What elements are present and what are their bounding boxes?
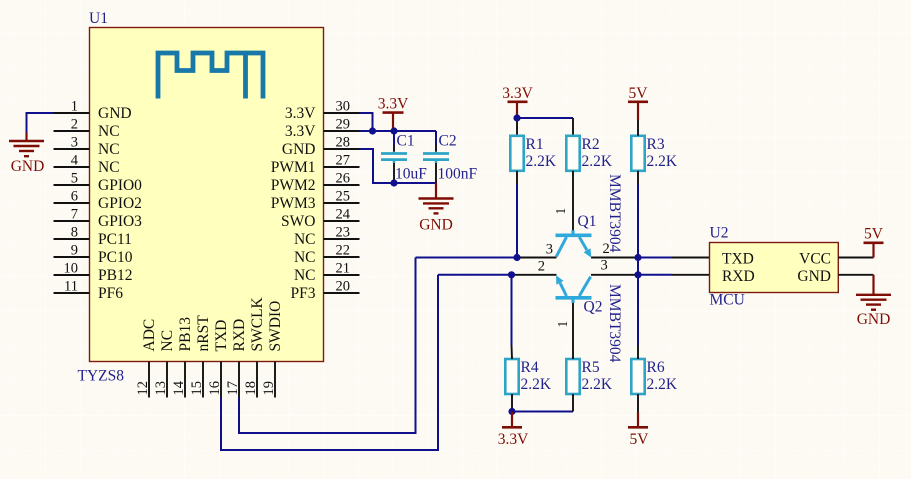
svg-text:3.3V: 3.3V [285, 123, 316, 140]
wire R1 bottom to row A [516, 171, 518, 184]
svg-text:3: 3 [71, 135, 78, 151]
svg-text:2.2K: 2.2K [582, 376, 613, 393]
U1 pin 20 (PF3) [324, 292, 360, 294]
ground GND (left of U1) [25, 133, 27, 142]
svg-text:GPIO2: GPIO2 [98, 195, 142, 212]
svg-text:SWCLK: SWCLK [249, 296, 266, 351]
wire U1 pin29 to C1/C2 [360, 130, 437, 132]
U1 pin 8 (PC11) [54, 238, 90, 240]
svg-text:U2: U2 [710, 225, 729, 242]
junction row B / R4 [508, 271, 515, 278]
svg-text:MMBT3904: MMBT3904 [606, 284, 623, 363]
resistor R6 body [631, 359, 644, 394]
IC U2 body [710, 243, 839, 293]
svg-text:14: 14 [171, 380, 187, 395]
svg-text:PC11: PC11 [98, 231, 132, 248]
junction R4 bottom [508, 408, 515, 415]
U1 pin 19 (SWDIO) [274, 362, 276, 398]
svg-text:29: 29 [336, 117, 351, 133]
svg-text:TXD: TXD [722, 251, 754, 268]
U1 pin 15 (nRST) [202, 362, 204, 398]
svg-text:GND: GND [11, 158, 45, 175]
svg-text:C1: C1 [397, 133, 415, 150]
svg-text:16: 16 [207, 381, 223, 396]
svg-text:nRST: nRST [195, 315, 212, 352]
U1 pin 18 (SWCLK) [256, 362, 258, 398]
svg-text:1: 1 [71, 99, 78, 115]
U1 pin 12 (ADC) [148, 362, 150, 398]
svg-text:GND: GND [419, 217, 453, 234]
svg-text:24: 24 [336, 207, 351, 223]
svg-text:2: 2 [538, 259, 545, 275]
U1 pin 13 (NC) [166, 362, 168, 398]
svg-text:PWM2: PWM2 [271, 177, 316, 194]
svg-text:2.2K: 2.2K [582, 153, 613, 170]
wire R6 bottom to 5V [637, 394, 639, 412]
svg-text:5V: 5V [864, 226, 884, 243]
U1 pin 11 (PF6) [54, 292, 90, 294]
svg-text:RXD: RXD [722, 268, 755, 285]
U1 pin 23 (NC) [324, 238, 360, 240]
svg-text:NC: NC [294, 231, 316, 248]
svg-text:Q1: Q1 [578, 213, 597, 230]
wire R4 bottom / R5 bottom [511, 394, 513, 412]
svg-text:TXD: TXD [213, 320, 230, 352]
U1 pin 16 (TXD) [220, 362, 222, 398]
svg-text:R5: R5 [582, 359, 600, 376]
wire R2 bottom to Q1 base [572, 171, 574, 234]
svg-text:NC: NC [294, 267, 316, 284]
svg-text:5V: 5V [629, 85, 649, 102]
U1 pin 29 (3.3V) [324, 130, 360, 132]
capacitor C1 [393, 152, 396, 154]
U1 pin 25 (PWM3) [324, 202, 360, 204]
U1 pin 1 (GND) [54, 112, 90, 114]
U1 pin 28 (GND) [324, 148, 360, 150]
junction 3.3V/R1 [513, 114, 520, 121]
junction row A / R3 column [634, 254, 641, 261]
svg-text:R2: R2 [582, 136, 600, 153]
svg-text:19: 19 [261, 381, 277, 396]
svg-text:2.2K: 2.2K [647, 376, 678, 393]
IC U1 body [90, 28, 324, 362]
svg-text:GND: GND [98, 105, 132, 122]
svg-text:21: 21 [336, 261, 351, 277]
svg-text:3.3V: 3.3V [285, 105, 316, 122]
U1 pin 17 (RXD) [238, 362, 240, 398]
junction pin30/pin29 [369, 127, 376, 134]
svg-text:23: 23 [336, 225, 351, 241]
svg-text:PB12: PB12 [98, 267, 132, 284]
svg-text:Q2: Q2 [584, 299, 603, 316]
svg-text:R6: R6 [647, 359, 665, 376]
wire 3.3V to R1/R2 [516, 120, 518, 136]
svg-text:NC: NC [98, 123, 120, 140]
U1 pin 24 (SWO) [324, 220, 360, 222]
resistor R2 body [566, 136, 579, 171]
U1 pin 14 (PB13) [184, 362, 186, 398]
U1 pin 5 (GPIO0) [54, 184, 90, 186]
U1 pin 9 (PC10) [54, 256, 90, 258]
svg-text:18: 18 [243, 381, 259, 396]
junction C1 bottom [390, 179, 397, 186]
ground GND (right, at U2 GND) [872, 275, 874, 295]
capacitor C2 [435, 152, 438, 154]
svg-text:PWM1: PWM1 [271, 159, 316, 176]
svg-text:30: 30 [336, 99, 351, 115]
svg-text:3: 3 [546, 242, 553, 258]
svg-text:2.2K: 2.2K [521, 376, 552, 393]
C2 bottom lead [435, 163, 437, 183]
svg-text:9: 9 [71, 243, 78, 259]
svg-text:1: 1 [553, 208, 568, 215]
wire U1 pin17 RXD to row A [239, 258, 416, 434]
svg-text:PF3: PF3 [291, 285, 316, 302]
svg-text:U1: U1 [89, 10, 108, 27]
svg-text:3: 3 [601, 258, 608, 274]
svg-text:11: 11 [64, 279, 78, 295]
transistor Q2 (MMBT3904) [556, 296, 592, 300]
svg-text:PB13: PB13 [177, 317, 194, 352]
wire Q2 base to R5 top [572, 298, 574, 359]
U1 pin 6 (GPIO2) [54, 202, 90, 204]
svg-text:100nF: 100nF [438, 166, 478, 183]
svg-text:NC: NC [98, 159, 120, 176]
transistor Q1 (MMBT3904) [556, 234, 592, 238]
svg-text:3.3V: 3.3V [498, 431, 529, 448]
svg-text:MMBT3904: MMBT3904 [606, 174, 623, 253]
svg-text:3.3V: 3.3V [378, 96, 409, 113]
U1 pin 21 (NC) [324, 274, 360, 276]
U1 pin 10 (PB12) [54, 274, 90, 276]
wire to C1 top [393, 131, 395, 145]
svg-text:VCC: VCC [799, 251, 831, 268]
svg-text:SWO: SWO [281, 213, 315, 230]
svg-text:PWM3: PWM3 [271, 195, 316, 212]
svg-text:25: 25 [336, 189, 351, 205]
svg-text:2.2K: 2.2K [647, 153, 678, 170]
svg-text:2.2K: 2.2K [526, 153, 557, 170]
svg-text:C2: C2 [439, 133, 457, 150]
svg-text:5V: 5V [630, 431, 650, 448]
svg-text:10uF: 10uF [395, 166, 427, 183]
svg-text:2: 2 [71, 117, 78, 133]
ground GND (below C2) [435, 183, 437, 199]
svg-text:TYZS8: TYZS8 [78, 368, 125, 385]
svg-text:5: 5 [71, 171, 78, 187]
antenna symbol (PCB meander) [158, 53, 263, 99]
wire row B (U1 TXD to U2 RXD) [438, 274, 512, 276]
svg-text:17: 17 [225, 381, 241, 396]
U1 pin 26 (PWM2) [324, 184, 360, 186]
svg-text:GND: GND [797, 268, 831, 285]
svg-text:NC: NC [294, 249, 316, 266]
svg-text:R1: R1 [526, 136, 544, 153]
wire R3 bottom through rows to R6 [637, 171, 639, 184]
U1 pin 27 (PWM1) [324, 166, 360, 168]
junction row B / R6 column [634, 271, 641, 278]
wire row A (U1 RXD to U2 TXD) [416, 257, 518, 259]
svg-text:12: 12 [135, 381, 151, 396]
U1 pin 22 (NC) [324, 256, 360, 258]
svg-text:ADC: ADC [141, 319, 158, 352]
resistor R3 body [631, 136, 644, 171]
wire U1 pin30 to 3.3V net [360, 113, 373, 131]
svg-text:15: 15 [189, 381, 205, 396]
svg-text:26: 26 [336, 171, 351, 187]
svg-text:GND: GND [282, 141, 316, 158]
junction C1 top [390, 127, 397, 134]
svg-text:13: 13 [153, 381, 169, 396]
svg-text:SWDIO: SWDIO [267, 301, 284, 352]
resistor R4 body [505, 359, 518, 394]
svg-text:20: 20 [336, 279, 351, 295]
svg-text:PC10: PC10 [98, 249, 133, 266]
svg-text:8: 8 [71, 225, 78, 241]
wire U1 pin1 to ground [27, 113, 54, 133]
svg-text:6: 6 [71, 189, 78, 205]
power 5V (below R6) [637, 412, 639, 427]
svg-text:22: 22 [336, 243, 351, 259]
U1 pin 3 (NC) [54, 148, 90, 150]
svg-text:NC: NC [98, 141, 120, 158]
svg-text:R3: R3 [647, 136, 665, 153]
U2 GND pin line [838, 274, 873, 276]
svg-text:7: 7 [71, 207, 78, 223]
svg-text:GPIO0: GPIO0 [98, 177, 142, 194]
wire U1 pin28 to cap grounds [360, 149, 437, 183]
svg-text:28: 28 [336, 135, 351, 151]
svg-text:NC: NC [159, 330, 176, 352]
U1 pin 2 (NC) [54, 130, 90, 132]
svg-text:PF6: PF6 [98, 285, 123, 302]
wire U1 pin16 TXD to row B [221, 275, 438, 450]
svg-text:4: 4 [71, 153, 79, 169]
svg-text:MCU: MCU [710, 292, 745, 309]
wire to C2 top [435, 131, 437, 145]
svg-text:27: 27 [336, 153, 351, 169]
wire row B to R4 top [511, 275, 513, 345]
resistor R5 body [566, 359, 579, 394]
svg-text:3.3V: 3.3V [502, 85, 533, 102]
C1 bottom lead [393, 163, 395, 183]
U1 pin 30 (3.3V) [324, 112, 360, 114]
svg-text:GPIO3: GPIO3 [98, 213, 142, 230]
svg-text:GND: GND [857, 311, 891, 328]
U1 pin 4 (NC) [54, 166, 90, 168]
power 3.3V (below R4) [511, 412, 513, 428]
svg-text:RXD: RXD [231, 319, 248, 352]
svg-text:R4: R4 [521, 359, 539, 376]
resistor R1 body [510, 136, 523, 171]
U2 VCC pin line [838, 257, 873, 259]
junction row A / R1 [513, 254, 520, 261]
svg-text:1: 1 [555, 321, 570, 328]
U1 pin 7 (GPIO3) [54, 220, 90, 222]
svg-text:10: 10 [64, 261, 79, 277]
